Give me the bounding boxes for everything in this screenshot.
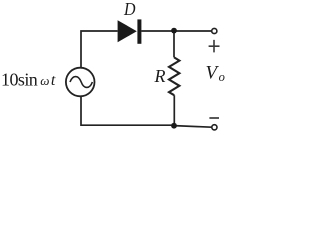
svg-text:D: D [123,0,135,19]
svg-text:ω: ω [40,73,49,88]
svg-text:o: o [219,70,225,84]
svg-text:R: R [154,66,166,86]
svg-text:t: t [51,72,56,89]
svg-text:10sin: 10sin [1,70,38,90]
svg-text:V: V [206,62,220,83]
